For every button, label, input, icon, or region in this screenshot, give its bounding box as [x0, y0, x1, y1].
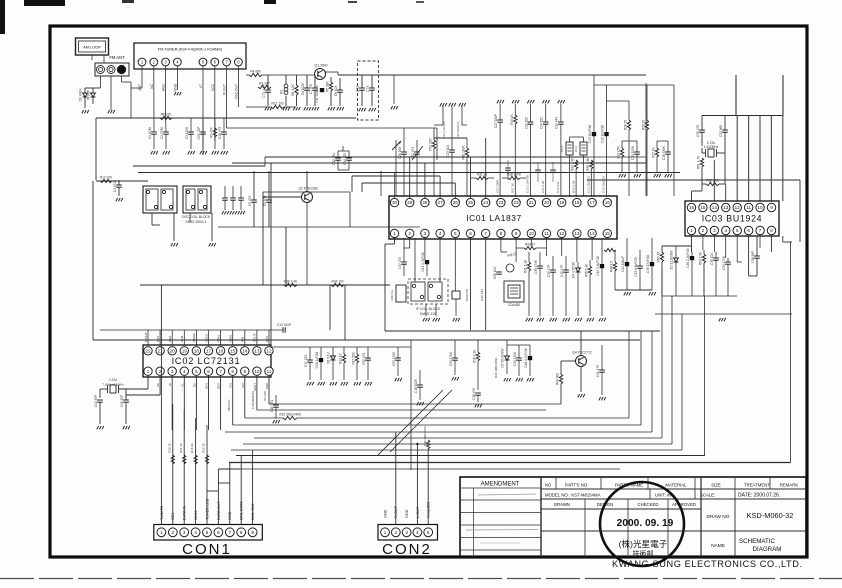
op-amp IC03 BU1924 box: [685, 201, 779, 236]
svg-text:16: 16: [689, 205, 695, 210]
svg-text:DATA OUT: DATA OUT: [217, 501, 221, 520]
svg-text:C4 471K: C4 471K: [113, 179, 117, 192]
wire rail y138 over pins: [434, 137, 467, 139]
svg-text:D4 4.7P/16: D4 4.7P/16: [572, 262, 576, 278]
svg-text:技術部: 技術部: [633, 549, 654, 558]
wire IC03 pin1 down: [691, 236, 693, 252]
svg-text:15: 15: [230, 348, 236, 353]
wire jack leads: [100, 76, 102, 88]
resistor R17 560: [355, 354, 358, 363]
wire x736 vertical from top: [735, 75, 737, 116]
capacitor C53 470K: [395, 357, 401, 359]
zener D6: [331, 356, 336, 360]
svg-text:15: 15: [605, 231, 611, 236]
coil M1: [284, 84, 288, 88]
svg-text:CIN2: CIN2: [229, 335, 233, 342]
svg-text:CE1: CE1: [171, 513, 175, 520]
wire step near CON1 pin5: [207, 490, 218, 492]
svg-text:8: 8: [231, 369, 234, 374]
svg-text:13: 13: [723, 205, 729, 210]
svg-text:IO2: IO2: [241, 383, 245, 388]
capacitor C39 47P: [550, 269, 556, 271]
resistor R42 47 horizontal: [604, 248, 616, 251]
svg-text:C34 471K: C34 471K: [722, 255, 726, 270]
FM ANT jack: [95, 63, 129, 76]
svg-text:7: 7: [229, 530, 232, 535]
svg-text:R26 15: R26 15: [624, 120, 628, 131]
svg-text:C46 2.2uF/50: C46 2.2uF/50: [686, 248, 690, 268]
capacitor C20 183: [401, 151, 407, 153]
capacitor C8 103: [337, 89, 343, 91]
svg-text:6: 6: [207, 369, 210, 374]
svg-text:R31 20K: R31 20K: [429, 137, 433, 150]
svg-text:10: 10: [254, 369, 260, 374]
trimmer CT1: [265, 89, 271, 91]
zener D7 11.8V/2W: [674, 258, 679, 262]
svg-text:C50 473: C50 473: [362, 353, 366, 365]
resistor R33 3.3K: [575, 160, 578, 169]
svg-text:D5 35.4V/2W: D5 35.4V/2W: [501, 349, 505, 368]
svg-text:DRAWN: DRAWN: [554, 502, 570, 507]
svg-text:R17 560: R17 560: [352, 352, 356, 364]
ground under C4: [116, 198, 118, 201]
svg-text:R52 20K: R52 20K: [706, 179, 719, 183]
capacitor C14 39P: [97, 399, 103, 401]
resistor R35 3.3K: [590, 160, 593, 169]
svg-text:C26 104: C26 104: [493, 267, 497, 279]
svg-text:D1 KA14: D1 KA14: [79, 88, 83, 101]
wire stub y151: [338, 150, 349, 152]
resistor R27 1K: [655, 148, 658, 157]
svg-text:11: 11: [746, 205, 751, 210]
resistor R38 220K above pin9: [508, 176, 520, 179]
crystal X2 4.332MHz: [708, 149, 714, 157]
svg-text:R23 300(1/4W): R23 300(1/4W): [279, 413, 301, 417]
scan artifact: bottom scan line: [0, 578, 842, 580]
capacitor C17 223: [307, 359, 313, 361]
wire y331 long below IC01: [385, 330, 660, 332]
OSC coil block 1: [143, 186, 177, 213]
svg-text:SCALE:: SCALE:: [700, 493, 715, 498]
svg-text:R38 31+: R38 31+: [390, 289, 394, 300]
svg-text:17: 17: [590, 200, 596, 205]
svg-text:6: 6: [469, 231, 472, 236]
svg-text:4: 4: [194, 530, 197, 535]
wire rail y347: [272, 346, 411, 348]
svg-text:C13 10uF/16: C13 10uF/16: [587, 175, 591, 193]
svg-text:R12 100: R12 100: [271, 102, 283, 106]
capacitor C32 360: [722, 129, 728, 131]
ground row under tuner caps: [151, 151, 153, 154]
svg-text:C3 122K: C3 122K: [185, 126, 189, 139]
wire rail y296 below IC03: [662, 295, 737, 297]
wire bus line y455.5: [236, 455, 705, 457]
wire bus line y450: [231, 449, 682, 451]
svg-text:R49 1K: R49 1K: [510, 113, 514, 125]
svg-text:C14 39P: C14 39P: [94, 395, 98, 407]
svg-text:10: 10: [529, 231, 535, 236]
svg-text:C20 183: C20 183: [398, 147, 402, 159]
svg-text:R40 100K: R40 100K: [462, 145, 466, 160]
svg-text:R44 300: R44 300: [556, 373, 560, 385]
wire x792 vertical right: [790, 242, 792, 463]
svg-text:R44 300(1/4W): R44 300(1/4W): [494, 358, 498, 378]
capacitor C1 103K: [151, 131, 157, 133]
svg-text:VCC: VCC: [211, 83, 215, 91]
svg-text:KMAT-200A-1: KMAT-200A-1: [185, 220, 206, 224]
resistor R28 15: [645, 120, 648, 130]
svg-text:C27 100P: C27 100P: [494, 114, 498, 128]
svg-text:IN 60P: IN 60P: [87, 90, 91, 100]
capacitor C14b 223: [346, 157, 352, 159]
svg-text:C17 223: C17 223: [304, 355, 308, 367]
svg-text:Vcc(LED): Vcc(LED): [427, 501, 431, 518]
svg-text:C18 470: C18 470: [472, 388, 476, 400]
svg-text:1: 1: [393, 231, 396, 236]
wire to IC03 pin16: [701, 184, 703, 191]
svg-text:R46 100(1/2W): R46 100(1/2W): [423, 426, 427, 446]
capacitor C27 100P: [497, 119, 503, 121]
grounds row mid cluster2: [504, 378, 506, 381]
svg-text:R4 680: R4 680: [250, 70, 261, 74]
wire rail y181 left: [96, 180, 148, 182]
svg-text:Q2 KTA1266: Q2 KTA1266: [298, 187, 317, 191]
wires above IC02: [147, 330, 149, 345]
svg-text:C7 470: C7 470: [309, 84, 313, 95]
svg-text:13: 13: [574, 231, 580, 236]
capacitor C18 470: [475, 392, 481, 394]
wire x772 vertical: [770, 236, 772, 252]
ground under Q4: [578, 394, 580, 397]
IC02 top pins 22-12: [144, 347, 152, 355]
grounds under IF coil block: [423, 318, 425, 321]
wire bus line y444: [243, 443, 672, 445]
svg-text:C40 47P: C40 47P: [560, 265, 564, 277]
wire pin6 down long: [470, 238, 472, 330]
svg-text:12: 12: [735, 205, 741, 210]
ceramic filter CF3: [566, 142, 573, 155]
svg-text:5: 5: [736, 228, 739, 233]
resistor R19 1K: [342, 354, 345, 363]
wire rail y157 right segment: [588, 156, 646, 158]
svg-text:R48 3.3: R48 3.3: [610, 261, 614, 272]
wire rail y345 stub: [507, 344, 530, 346]
wire rail above IC03: [702, 115, 783, 117]
ground under varicap arrow: [391, 106, 393, 109]
svg-text:Q1 3940: Q1 3940: [314, 64, 327, 68]
capacitor C10 100p top right of IC02: [282, 327, 284, 333]
electrolytic C13 10uF/16: [592, 132, 596, 136]
svg-text:GND: GND: [228, 511, 232, 520]
FM tuner module box: [134, 43, 246, 69]
svg-text:C5 473: C5 473: [248, 196, 252, 207]
svg-text:C23 104: C23 104: [446, 145, 450, 157]
ground row under Q1 input parts: [265, 107, 267, 110]
wire node to Q1: [270, 74, 296, 76]
wire rail y85: [594, 84, 674, 86]
svg-text:C23 3.3uF/50: C23 3.3uF/50: [526, 174, 530, 193]
svg-text:2: 2: [408, 231, 411, 236]
svg-text:X-TAL: X-TAL: [109, 378, 118, 382]
svg-text:CT1 4.7P: CT1 4.7P: [262, 84, 266, 97]
wire left vertical bus x93 long: [92, 181, 94, 340]
svg-text:MOL/PLL: MOL/PLL: [227, 399, 231, 411]
svg-text:PD1: PD1: [168, 336, 172, 342]
wire long rail y75 to right: [392, 74, 646, 76]
svg-text:1: 1: [384, 530, 387, 535]
small box right of IF coil: [452, 291, 460, 299]
capacitor C52 470K: [452, 357, 458, 359]
svg-text:IC01 LA1837: IC01 LA1837: [466, 213, 522, 223]
wire pin9 down: [515, 238, 517, 262]
svg-text:CON2: CON2: [382, 541, 432, 558]
svg-text:25: 25: [468, 200, 474, 205]
wire bus line y438: [254, 437, 662, 439]
wire AM loop to jack: [103, 55, 105, 63]
svg-text:TUNED LED: TUNED LED: [205, 498, 209, 520]
resistor R40 100K: [465, 148, 468, 157]
svg-text:9: 9: [244, 369, 247, 374]
electrolytic C46 2.2uF/50: [690, 256, 694, 260]
svg-text:1: 1: [160, 530, 163, 535]
resistors on CON1 risers: [171, 455, 174, 464]
svg-text:2: 2: [172, 530, 175, 535]
svg-text:4: 4: [725, 228, 728, 233]
svg-text:C53 470K: C53 470K: [392, 351, 396, 366]
wires IC02 pins routed right: [232, 375, 234, 425]
svg-text:CT2: CT2: [356, 86, 360, 92]
svg-text:R18 1K: R18 1K: [190, 443, 194, 453]
draw no cell: [701, 530, 806, 532]
ground under tuner GND pin: [174, 92, 176, 95]
svg-text:A-IN: A-IN: [180, 336, 184, 342]
capacitor C34 471K: [725, 261, 731, 263]
parts header row: [541, 488, 806, 490]
svg-text:R9 47K: R9 47K: [210, 126, 214, 138]
svg-text:R28 15: R28 15: [642, 120, 646, 131]
svg-text:ANT: ANT: [138, 84, 142, 91]
resistor R48 3.3: [613, 262, 616, 271]
capacitor C18 102K: [417, 384, 423, 386]
capacitor C25 223K: [634, 151, 640, 153]
svg-text:24: 24: [483, 200, 489, 205]
svg-text:R10 10K: R10 10K: [100, 176, 113, 180]
svg-text:MATERIAL: MATERIAL: [665, 483, 687, 488]
svg-text:R31 1K: R31 1K: [477, 173, 489, 177]
electrolytic C11 10uF/16: [320, 88, 324, 92]
svg-text:C49 412K: C49 412K: [513, 351, 517, 366]
svg-text:C21 822: C21 822: [524, 117, 528, 129]
wire rail y285 long: [140, 284, 390, 286]
wire CON2 pin4 node dot: [416, 443, 418, 445]
wire rail y171: [138, 172, 680, 174]
svg-text:23: 23: [498, 200, 504, 205]
capacitor C43 6.8uF/25: [637, 265, 643, 267]
svg-text:14: 14: [242, 348, 248, 353]
svg-text:ST-LED: ST-LED: [263, 391, 267, 401]
svg-text:CF4: CF4: [574, 146, 578, 152]
svg-text:R29 476: R29 476: [465, 289, 469, 301]
staircase verticals: [628, 331, 630, 418]
svg-text:7: 7: [219, 369, 222, 374]
wire rail y163: [232, 162, 646, 164]
left small box: [396, 285, 406, 302]
scan artifact: top edge dashes: [24, 0, 65, 6]
svg-text:21: 21: [529, 200, 535, 205]
svg-text:27: 27: [438, 200, 444, 205]
electrolytic C41 4.7uF/16: [425, 260, 429, 264]
grounds row above IC01 mid: [497, 100, 499, 103]
OSC coil block 2: [183, 186, 211, 213]
wire x704 vertical long: [704, 296, 706, 456]
svg-text:(株)光星電子: (株)光星電子: [619, 538, 668, 549]
svg-text:C36 56P: C36 56P: [751, 251, 755, 263]
resistor R46 100 on CON2 riser: [427, 440, 430, 449]
svg-text:21: 21: [158, 348, 164, 353]
resistor R10 10K: [100, 179, 112, 182]
svg-text:FM TUNER (KSF-F4Q4VA-1 KOAMS): FM TUNER (KSF-F4Q4VA-1 KOAMS): [158, 48, 223, 52]
svg-text:MODEL NO : KST-M8154MA: MODEL NO : KST-M8154MA: [545, 493, 601, 498]
svg-text:R21 1K: R21 1K: [179, 443, 183, 453]
svg-text:XOUT: XOUT: [253, 333, 257, 342]
svg-text:C38 473K: C38 473K: [534, 259, 538, 274]
svg-text:C39 47P: C39 47P: [547, 265, 551, 277]
svg-text:3: 3: [405, 530, 408, 535]
resistor R49 1K: [514, 115, 517, 124]
svg-text:2000. 09. 19: 2000. 09. 19: [617, 518, 674, 529]
svg-text:C11 10uF/16: C11 10uF/16: [315, 85, 319, 102]
wire x783 vertical from top: [782, 75, 784, 116]
discriminator CDA450 box: [504, 281, 524, 302]
svg-text:8: 8: [770, 228, 773, 233]
wire pin5 down: [454, 238, 456, 291]
svg-text:28: 28: [422, 200, 428, 205]
ground under trimmers: [359, 108, 361, 111]
wire left vertical bus x96: [95, 118, 97, 180]
wire rail y118 left: [96, 117, 356, 119]
svg-text:L-OUT: L-OUT: [416, 506, 420, 518]
svg-text:R33 3.3K: R33 3.3K: [571, 157, 575, 171]
svg-text:PART'S NO: PART'S NO: [565, 483, 588, 488]
svg-text:11: 11: [544, 231, 549, 236]
svg-text:CIN1: CIN1: [216, 335, 220, 342]
transistor Q1: [315, 69, 326, 80]
extra caps above IC01 second row: [505, 167, 511, 169]
svg-text:1: 1: [147, 369, 150, 374]
capacitor C26 104: [496, 271, 502, 273]
svg-text:C28 333K: C28 333K: [662, 145, 666, 160]
svg-text:NC: NC: [150, 83, 154, 88]
svg-text:R27 1K: R27 1K: [652, 146, 656, 158]
resistor R26 15: [627, 120, 630, 130]
svg-text:C18 102K: C18 102K: [414, 378, 418, 393]
capacitor C19b 331: [273, 404, 279, 406]
wire coil block leads: [151, 213, 153, 225]
diagonal wires above CON2: [378, 390, 443, 455]
wire y170 stub: [338, 169, 349, 171]
wire x411 vertical: [410, 340, 412, 470]
svg-text:NAME: NAME: [711, 543, 725, 549]
wire y290 stub: [615, 289, 652, 291]
svg-text:DI: DI: [168, 383, 172, 386]
transistor Q4: [576, 356, 587, 367]
svg-text:NO: NO: [545, 483, 552, 488]
svg-text:TREATMENT: TREATMENT: [744, 483, 770, 488]
svg-text:OSC OUT: OSC OUT: [234, 84, 238, 99]
wire bus line y432: [225, 431, 652, 433]
svg-text:DATE: 2000.07.26.: DATE: 2000.07.26.: [738, 493, 780, 499]
resistor R52 20K: [706, 182, 719, 185]
wire rail y180b: [587, 179, 800, 181]
IC03 top pins 16-9: [687, 203, 695, 211]
capacitor C12 152: [335, 157, 341, 159]
tuner pins 1-8: [138, 58, 146, 66]
IC01 bottom pins 1-15: [390, 229, 398, 237]
svg-text:REMARK: REMARK: [780, 483, 799, 488]
svg-text:2: 2: [395, 530, 398, 535]
wire loop C36: [748, 236, 750, 276]
capacitor C37 470: [401, 261, 407, 263]
svg-text:12: 12: [559, 231, 565, 236]
resistor R12 100: [271, 105, 284, 108]
svg-text:9: 9: [770, 205, 773, 210]
svg-text:P-DATA/MUTE: P-DATA/MUTE: [251, 391, 255, 410]
diode D2: [91, 93, 96, 97]
trimmer CT3: [369, 87, 375, 89]
resistor R51 4.7K: [700, 158, 703, 167]
capacitor C28 333K: [665, 151, 671, 153]
svg-text:C43 6.8uF/25: C43 6.8uF/25: [634, 257, 638, 277]
svg-text:5: 5: [206, 530, 209, 535]
wire Q4 collector up: [580, 331, 582, 356]
wire x263 vertical: [262, 197, 264, 285]
svg-text:C25 223K: C25 223K: [631, 145, 635, 160]
CON1 riser bends to bus: [217, 469, 219, 525]
svg-text:C45 47uF/10: C45 47uF/10: [646, 255, 650, 274]
resistor R44 300: [559, 374, 562, 384]
svg-text:R6 1.2K: R6 1.2K: [291, 83, 295, 95]
svg-text:GND2: GND2: [192, 333, 196, 342]
svg-text:R38 220K: R38 220K: [507, 173, 522, 177]
svg-text:GND: GND: [383, 509, 387, 518]
capacitor C40 47P: [563, 269, 569, 271]
wire x271 vertical: [270, 163, 272, 347]
svg-text:R-OUT: R-OUT: [394, 505, 398, 518]
ground under C45 group: [624, 292, 626, 295]
wires IC03 top pins vertical bundle: [736, 116, 738, 202]
wire rail y166: [133, 165, 265, 167]
wire rail y192 to Q2: [263, 191, 350, 193]
grounds row mid cluster: [307, 382, 309, 385]
svg-text:R8 220: R8 220: [161, 113, 172, 117]
svg-text:C24 822: C24 822: [540, 117, 544, 129]
svg-text:C16 1uF/16: C16 1uF/16: [315, 351, 319, 368]
svg-text:GND: GND: [405, 509, 409, 518]
resistor R9 47K: [213, 128, 216, 137]
wire loop pin2-3: [409, 238, 411, 248]
svg-text:C52 470K: C52 470K: [449, 351, 453, 366]
svg-text:4: 4: [439, 231, 442, 236]
capacitor C38 473K: [537, 265, 543, 267]
svg-text:C44 100uF: C44 100uF: [621, 256, 625, 272]
CON1 pins: [157, 528, 166, 537]
svg-text:R5 56K: R5 56K: [326, 80, 330, 92]
svg-text:5: 5: [454, 231, 457, 236]
svg-text:R36 5.1K: R36 5.1K: [585, 263, 589, 277]
wire q2 collector: [306, 171, 308, 191]
capacitor C51 47P: [599, 369, 605, 371]
svg-text:2: 2: [702, 228, 705, 233]
